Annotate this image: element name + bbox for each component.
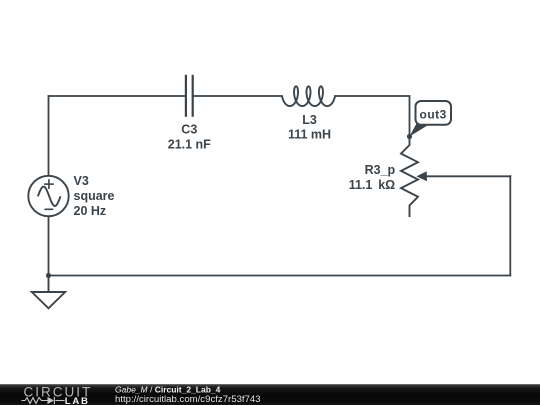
node dot at ground junction xyxy=(46,273,51,278)
wire wiper horizontal xyxy=(426,175,510,177)
svg-text:21.1 nF: 21.1 nF xyxy=(168,138,211,152)
wire right vertical (wiper to bottom) xyxy=(509,176,511,275)
svg-text:L3: L3 xyxy=(302,113,317,127)
source V3 minus sign xyxy=(44,208,53,210)
potentiometer R3_p labels xyxy=(349,163,396,192)
svg-text:out3: out3 xyxy=(420,107,447,121)
wire bottom horizontal xyxy=(49,275,511,277)
wire top-middle horizontal (capacitor to inductor) xyxy=(194,95,282,97)
inductor L3 xyxy=(282,86,335,106)
inductor L3 labels xyxy=(288,113,331,142)
wire left vertical (V3 bottom to ground junction) xyxy=(48,216,50,275)
node dot at out3 xyxy=(407,134,412,139)
potentiometer R3_p wiper arrowhead xyxy=(416,171,427,181)
wire left vertical (top wire to V3 top) xyxy=(48,96,50,176)
source V3 sine wave xyxy=(38,187,61,206)
node label out3 tail xyxy=(410,122,430,137)
svg-text:20 Hz: 20 Hz xyxy=(74,204,107,218)
svg-text:http://circuitlab.com/c9cfz7r5: http://circuitlab.com/c9cfz7r53f743 xyxy=(115,394,261,405)
svg-text:C3: C3 xyxy=(181,123,197,137)
source V3 circle xyxy=(28,176,68,216)
capacitor C3 xyxy=(186,75,193,117)
svg-text:square: square xyxy=(74,189,115,203)
logo diode triangle xyxy=(48,397,55,404)
svg-text:11.1 kΩ: 11.1 kΩ xyxy=(349,178,396,192)
svg-text:111 mH: 111 mH xyxy=(288,128,331,142)
svg-text:V3: V3 xyxy=(74,174,89,188)
ground symbol xyxy=(32,276,65,309)
source V3 plus sign xyxy=(44,179,54,189)
svg-text:LAB: LAB xyxy=(65,396,90,405)
wire top-right horizontal with corner down to node xyxy=(335,96,410,137)
source V3 labels xyxy=(74,174,115,218)
svg-text:R3_p: R3_p xyxy=(365,163,396,177)
node label out3 box xyxy=(416,101,452,125)
logo resistor zigzag and diode xyxy=(22,397,65,404)
potentiometer R3_p zigzag xyxy=(401,137,418,218)
wire top-left horizontal xyxy=(49,95,185,97)
capacitor C3 labels xyxy=(168,123,211,152)
